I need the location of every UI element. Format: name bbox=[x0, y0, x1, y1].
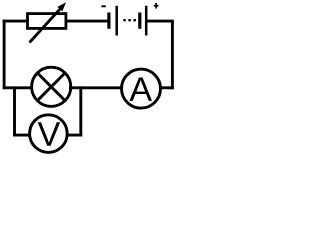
wire top-left horizontal bbox=[3, 20, 28, 23]
wire rheostat to battery bbox=[66, 20, 108, 23]
lamp cross stroke 1 bbox=[37, 73, 65, 101]
resistor (rheostat) body bbox=[28, 14, 66, 29]
label plus bbox=[154, 3, 159, 9]
battery BT2 short plate bbox=[138, 13, 141, 29]
rheostat arrow bbox=[30, 2, 66, 42]
ammeter letter A bbox=[129, 78, 152, 101]
battery BT1 negative short plate bbox=[107, 13, 110, 29]
wire right vertical bbox=[171, 21, 174, 89]
wire battery to top-right corner bbox=[147, 20, 174, 23]
wire parallel branch right stub bbox=[79, 86, 82, 136]
lamp L1 circle bbox=[32, 67, 71, 106]
voltmeter U2 circle bbox=[30, 115, 68, 153]
lamp cross stroke 2 bbox=[37, 73, 65, 101]
wire bottom left to voltmeter bbox=[13, 134, 31, 137]
wire right corner to ammeter bbox=[159, 86, 174, 89]
wire parallel branch left stub bbox=[13, 86, 16, 136]
label minus bbox=[101, 5, 105, 7]
voltmeter letter V bbox=[38, 122, 60, 145]
battery BT1 long plate bbox=[115, 6, 118, 36]
wire voltmeter to bottom right bbox=[66, 134, 82, 137]
ammeter U1 circle bbox=[122, 69, 161, 108]
wire ammeter to lamp bbox=[69, 86, 123, 89]
wire lamp to left vertical bbox=[3, 86, 33, 89]
battery ellipsis dots bbox=[123, 19, 135, 21]
battery BT2 positive long plate bbox=[145, 6, 148, 36]
wire left vertical bbox=[3, 20, 6, 90]
